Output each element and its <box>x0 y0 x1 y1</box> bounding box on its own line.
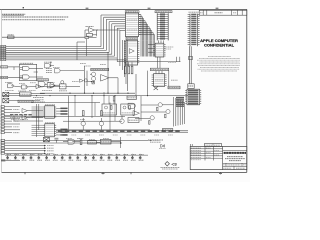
wire U4 pin 11 to J1 <box>139 35 155 41</box>
wire drops to q rail <box>69 96 111 130</box>
wire rail 95.5 <box>2 95 188 96</box>
wire gate row <box>11 86 60 87</box>
IC U16 <box>32 124 57 137</box>
wire bus A6 top run to U4 <box>117 27 125 29</box>
wire rail 61 <box>117 61 180 63</box>
transistor Q8 <box>150 116 154 120</box>
net flags U16 <box>56 129 67 136</box>
wire bus A0 top run to U4 <box>101 14 125 16</box>
diode D1 <box>159 144 166 148</box>
net strip bottom bus <box>56 130 188 135</box>
resistor R3 <box>128 62 130 74</box>
wire J8 down 1 <box>188 46 190 83</box>
wire data bus D4 <box>5 150 54 152</box>
inverter U3A <box>89 28 99 33</box>
gate U5B <box>23 75 30 79</box>
IC U22 label box <box>128 118 139 123</box>
border frame top <box>0 8 247 10</box>
net label IOSEL <box>1 76 8 78</box>
drawing note diamond C3 <box>161 162 180 169</box>
wire U4 pin 8 to J1 <box>139 29 151 41</box>
wire bus A1 horizontal <box>6 48 104 50</box>
wire bus A5 top run to U4 <box>115 25 126 27</box>
resistor R7 <box>101 111 103 116</box>
wire osc to bus <box>77 39 87 60</box>
wire U4 pin 9 to J1 <box>139 31 152 41</box>
IC U4 74LS latch <box>125 13 140 37</box>
connector J8 label <box>189 11 199 13</box>
wire left verticals <box>37 104 39 137</box>
zone tick top B <box>86 8 89 10</box>
note line 1 <box>2 16 68 18</box>
resistor R10 <box>157 107 158 111</box>
gate U7A <box>38 82 45 87</box>
ground rail for capacitor row <box>5 154 148 155</box>
wire q rail <box>63 129 150 131</box>
wire osc feedback <box>85 30 97 38</box>
box U21 <box>100 139 111 144</box>
resistor R9 <box>85 37 89 39</box>
svg-text:CONFIDENTIAL: CONFIDENTIAL <box>204 43 235 48</box>
label RC net <box>168 62 178 80</box>
wire bus A2 horizontal <box>6 49 107 51</box>
wire bus A5 vertical riser <box>114 26 116 56</box>
net label D4 <box>1 150 5 152</box>
transistor Q9 <box>61 81 64 84</box>
net flags U15 <box>56 108 67 115</box>
net label A0 <box>1 45 6 47</box>
driver block DB2 <box>121 104 135 115</box>
net label D2 <box>1 145 5 147</box>
crystal Y1 <box>86 27 94 37</box>
IC U12 PROM <box>152 74 167 90</box>
title block signature grid <box>190 146 222 169</box>
net label D5 <box>1 152 5 154</box>
resistor R6 <box>82 111 84 116</box>
wire riser extension 2 <box>116 58 118 62</box>
wire rail 121 <box>14 116 43 121</box>
wire osc output <box>97 29 120 31</box>
IC U10 <box>124 40 139 65</box>
wire rail 93 <box>40 93 135 94</box>
wire U4 pin 2 to J1 <box>139 17 143 41</box>
resistor R5 <box>79 139 84 145</box>
wire bus A7 vertical riser <box>119 30 121 60</box>
wire bus A3 vertical riser <box>108 22 110 53</box>
border frame left <box>1 9 3 172</box>
confidential legal text <box>197 57 240 71</box>
RC network on J8 <box>188 84 194 89</box>
zone tick bottom C <box>130 172 132 174</box>
title block header cells <box>204 144 221 147</box>
zone tick bottom D <box>219 172 222 174</box>
wire U4 pin 6 to J1 <box>139 25 148 41</box>
net label GND flag <box>1 159 20 161</box>
zone tick bottom A <box>24 172 26 174</box>
gate U6C <box>36 84 41 88</box>
net label A2 <box>1 49 6 51</box>
wire center web <box>63 96 122 122</box>
wire riser extension 3 <box>119 60 121 66</box>
resistor R12 <box>149 121 150 125</box>
wire bus A1 vertical riser <box>103 17 105 48</box>
gate U6B <box>22 85 28 89</box>
net strip ROMSEL <box>150 68 168 70</box>
connector J1 label <box>155 11 172 13</box>
gate U21A <box>44 62 54 68</box>
wire buffer out <box>109 78 118 93</box>
IC U13 label box <box>168 86 180 89</box>
gate U5A <box>23 66 29 70</box>
wire bus A2 vertical riser <box>105 19 107 50</box>
labels gate row <box>5 82 36 83</box>
wire devsel <box>8 67 20 70</box>
net flags right bundle <box>176 97 184 107</box>
net strip 74LS05 left <box>18 100 33 102</box>
IC U7 label <box>60 84 67 89</box>
net strip HDA <box>91 68 109 70</box>
wire bus A6 vertical riser <box>116 28 118 58</box>
notes heading <box>2 14 25 15</box>
gate U7B <box>47 83 54 88</box>
wire title block feeds <box>191 144 193 146</box>
net label DEVSEL <box>1 66 8 68</box>
border frame bottom <box>2 171 247 173</box>
net label D3 <box>1 147 5 149</box>
wire bus A7 top run to U4 <box>120 29 126 31</box>
label cluster misc <box>33 98 45 102</box>
net label A7 <box>1 59 6 61</box>
wire bus A1 top run to U4 <box>104 16 126 18</box>
gate U19A <box>68 139 75 144</box>
wire data bus D3 <box>5 147 54 149</box>
sub row mid <box>72 79 95 84</box>
IC U15 <box>32 106 57 118</box>
net labels PH0-PH3 <box>46 69 52 73</box>
wire bottom cluster <box>63 137 121 148</box>
resistor R8 <box>113 97 115 105</box>
wire rail 116 <box>2 115 125 117</box>
wire U4 pin 1 to J1 <box>139 15 141 41</box>
resistor R4 <box>131 62 133 74</box>
net label A6 <box>1 57 6 59</box>
connector J9 block <box>185 89 201 105</box>
net label A4 <box>1 53 6 55</box>
net label D0 <box>1 139 5 141</box>
gate U17A <box>128 103 135 108</box>
wire U4 pin 3 to J1 <box>139 19 144 41</box>
wire header fan <box>4 107 20 133</box>
wire bus A7 horizontal <box>6 59 120 61</box>
zone tick top A <box>23 7 24 8</box>
wire right bundle verticals <box>174 97 185 127</box>
IC U5 flip-flop box <box>19 64 36 80</box>
resistor R1 <box>8 35 15 39</box>
wire osc input <box>2 36 85 38</box>
pin header P1 <box>1 106 4 134</box>
wire J1 to U11 <box>159 40 164 43</box>
wire bus A5 horizontal <box>6 55 115 57</box>
wire q cluster web <box>135 96 174 121</box>
svg-text:-C3: -C3 <box>171 163 177 167</box>
wire bus A6 horizontal <box>6 57 117 59</box>
wire bundle to logic <box>123 40 128 91</box>
gate U6A <box>8 83 14 88</box>
resistor R11 <box>165 114 166 118</box>
wire U11 feed <box>148 45 153 53</box>
wire U5 outputs <box>20 67 43 78</box>
connector CN2 <box>3 92 9 96</box>
labels U7 row <box>42 90 67 92</box>
capacitor C22 <box>189 57 193 60</box>
wire bus A3 top run to U4 <box>109 21 125 23</box>
title text DISK II INTERFACE <box>225 157 245 161</box>
wire J8 down 2 <box>190 46 192 83</box>
IC U10 label <box>126 37 138 39</box>
transistor Q1 <box>90 72 96 76</box>
IC U15 label <box>45 104 55 106</box>
labels gate row 2 <box>5 90 36 92</box>
note line 2 <box>2 19 65 21</box>
flag row mid-left <box>10 114 32 120</box>
title block outline <box>190 146 247 169</box>
IC U5 flip-flop box label <box>20 62 34 64</box>
transistor Q2 <box>92 77 96 84</box>
net label A1 <box>1 47 6 49</box>
IC U20 label box <box>88 141 97 144</box>
wire data bus D0 <box>5 140 160 142</box>
wire bundle staircase drop <box>141 40 155 56</box>
IC U11 label <box>165 47 174 49</box>
wire center verticals <box>85 66 137 96</box>
wire bus A3 horizontal <box>6 51 109 53</box>
transistor Q6 <box>158 103 162 107</box>
wire cn out <box>9 94 45 101</box>
resistor R2 <box>125 62 127 74</box>
wire bus A7 extension <box>120 59 127 61</box>
wire iosel <box>8 77 23 79</box>
gate cluster mid <box>22 109 43 120</box>
IC U18 label box <box>127 96 136 99</box>
label Z1 <box>148 140 163 142</box>
label PHASE net <box>80 64 106 67</box>
wire bus A0 horizontal <box>6 46 101 48</box>
transistor Q4 <box>99 118 103 130</box>
wire u-cluster verticals <box>148 57 180 96</box>
stamp APPLE COMPUTER CONFIDENTIAL <box>200 38 238 48</box>
wire bus A4 horizontal <box>6 53 112 55</box>
IC U11 <box>153 43 165 57</box>
wire data bus D5 <box>5 153 54 155</box>
labels bottom cluster <box>66 138 109 139</box>
wire bus A0 vertical riser <box>100 15 102 47</box>
wire rail 102.5 <box>31 102 100 104</box>
border frame right <box>246 9 248 172</box>
wire U4 pin 5 to J1 <box>139 23 147 41</box>
component X1 <box>43 137 49 141</box>
wire U4 pin 10 to J1 <box>139 33 154 41</box>
wire U11 to strip <box>158 57 161 68</box>
polarized cap C2 <box>54 138 58 142</box>
net label D1 <box>1 142 5 144</box>
transistor Q5 <box>120 116 124 124</box>
wire bus A4 top run to U4 <box>112 23 126 25</box>
zone tick top C <box>148 8 151 10</box>
gate U17B <box>133 111 140 116</box>
IC U16 label <box>45 122 55 124</box>
IC U4 label <box>125 11 139 13</box>
gate U6D <box>48 82 55 87</box>
buffer U8A <box>101 75 110 82</box>
wire U4 pin 7 to J1 <box>139 27 150 41</box>
transistor Q7 <box>166 110 170 114</box>
revision table <box>199 10 247 15</box>
IC U14 label <box>20 92 31 96</box>
wire U7 link <box>44 62 80 87</box>
wire data bus D1 <box>5 142 123 144</box>
net label A3 <box>1 51 6 53</box>
net label A5 <box>1 55 6 57</box>
connector J8 <box>188 14 200 47</box>
gate U21B <box>53 67 84 73</box>
wire bus A4 vertical riser <box>111 24 113 54</box>
decoupling capacitor row C4-C21 <box>6 155 144 161</box>
wire riser extension 1 <box>107 52 109 93</box>
zone tick bottom B <box>102 172 105 174</box>
connector CN3 <box>3 98 9 103</box>
title block number row <box>223 163 247 169</box>
zone tick top D <box>216 8 219 10</box>
net strip 74LS05 <box>37 79 49 81</box>
wire U4 pin 4 to J1 <box>139 21 145 41</box>
company logo apple computer inc <box>223 151 247 153</box>
transistor Q3 <box>80 118 85 130</box>
connector J1 <box>157 13 168 40</box>
wire strip to U12 <box>156 71 162 74</box>
wire bus A2 top run to U4 <box>106 18 125 20</box>
driver block DB1 <box>102 92 117 115</box>
wire data bus D2 <box>5 145 54 147</box>
net strip lower right <box>162 129 172 131</box>
